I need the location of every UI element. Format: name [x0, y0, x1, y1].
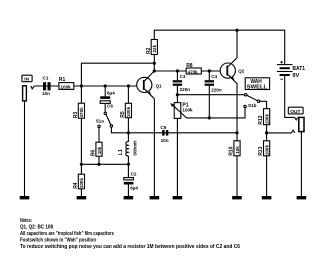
switch S1b [245, 94, 247, 96]
node C6 junction [104, 84, 107, 87]
wire Q1 emitter lead [153, 99, 155, 196]
svg-text:100k: 100k [79, 178, 84, 189]
wire S1a-C to R6 [98, 128, 100, 143]
svg-text:IN: IN [24, 76, 29, 81]
svg-text:R2: R2 [146, 47, 152, 54]
wire jack ground lead [24, 101, 26, 196]
wire bottom-left row [81, 163, 128, 165]
node rail/Q2-collector junction [235, 29, 238, 32]
node emitter/R10 junction [235, 131, 238, 134]
ground R10 [232, 196, 242, 199]
output lower arrow [292, 130, 295, 133]
node feedback junction [153, 62, 156, 65]
wire Q2 collector lead [236, 30, 238, 58]
svg-text:10k: 10k [235, 146, 240, 154]
svg-text:220n: 220n [180, 87, 191, 92]
wire R6 bottom [98, 156, 100, 164]
IN label box [22, 75, 32, 82]
svg-text:R12: R12 [258, 115, 264, 124]
svg-text:Q1: Q1 [156, 84, 163, 89]
svg-text:R5: R5 [120, 111, 126, 118]
wire R5 bottom [127, 118, 129, 133]
svg-text:6µ4: 6µ4 [130, 185, 138, 190]
svg-text:100k: 100k [264, 114, 269, 125]
svg-text:S1b: S1b [248, 103, 257, 108]
capacitor C3 [176, 71, 178, 80]
WAH SWELL label box [245, 78, 269, 90]
svg-text:R8: R8 [186, 63, 193, 69]
transistor Q1 [137, 77, 152, 92]
resistor R13 [266, 133, 268, 141]
wire R4 ground lead [80, 189, 82, 196]
svg-text:C6: C6 [107, 104, 113, 109]
svg-text:Footswitch shown in "Wah" posi: Footswitch shown in "Wah" position [20, 237, 96, 243]
resistor R6 [96, 142, 102, 156]
svg-text:470k: 470k [79, 107, 84, 118]
resistor R4 [78, 174, 84, 189]
wire P1 ground lead [176, 118, 178, 196]
wire top rail [154, 30, 284, 64]
ground Q1 emitter [150, 196, 160, 199]
ground input jack [20, 196, 30, 199]
wire P1 wiper to S1b [187, 108, 246, 118]
svg-text:C4: C4 [211, 74, 217, 79]
svg-text:C1: C1 [43, 76, 49, 81]
OUT label box [288, 107, 303, 114]
capacitor C1 [43, 82, 46, 90]
svg-text:L1: L1 [118, 149, 124, 155]
node bottom-left junction [80, 163, 83, 166]
ground output jack [297, 196, 307, 199]
svg-text:100k: 100k [264, 145, 269, 156]
node collector junction [153, 69, 156, 72]
wire feedback line [81, 63, 154, 103]
svg-text:BAT1: BAT1 [292, 66, 305, 72]
input jack J1 [23, 86, 27, 101]
svg-text:220n: 220n [211, 88, 222, 93]
wire R12 bottom [266, 125, 268, 133]
wire mid row (collector to Q2 base) [154, 70, 226, 72]
svg-text:S1a: S1a [96, 118, 105, 123]
battery minus sign [280, 78, 283, 80]
wire S1b-B to R12 [260, 101, 267, 108]
svg-text:OUT: OUT [290, 109, 300, 115]
svg-text:C2: C2 [131, 172, 137, 177]
ground R13 [262, 196, 272, 199]
svg-text:100k: 100k [61, 85, 72, 90]
svg-text:500mH: 500mH [132, 140, 137, 156]
wire C3 to S1b [177, 94, 244, 96]
node R12/R13/out junction [265, 131, 268, 134]
resistor R12 [264, 109, 270, 125]
battery BAT1 [277, 64, 293, 66]
svg-text:10n: 10n [42, 91, 50, 96]
svg-text:Notes:: Notes: [20, 218, 32, 224]
svg-text:R4: R4 [73, 182, 79, 189]
resistor R8 [186, 68, 201, 74]
svg-text:R1: R1 [59, 77, 66, 83]
node R1/R3 junction [80, 84, 83, 87]
ground C2 [124, 196, 134, 199]
wire R13 bottom [266, 156, 268, 196]
node R6 junction [97, 163, 100, 166]
svg-text:To reduce switching pop noise: To reduce switching pop noise you can ad… [20, 244, 240, 250]
capacitor C4 [208, 71, 210, 80]
svg-text:100k: 100k [126, 106, 131, 117]
svg-text:SWELL: SWELL [247, 85, 268, 91]
svg-text:22k: 22k [152, 44, 157, 52]
capacitor C2 electrolytic [127, 164, 129, 177]
resistor R2 [151, 40, 157, 55]
ground R4 [77, 196, 87, 199]
svg-text:100k: 100k [182, 107, 193, 112]
node C4 bottom junction [208, 116, 211, 119]
wire output row [267, 132, 292, 134]
node C3 top junction [176, 69, 179, 72]
wire R2 bottom [153, 55, 155, 72]
wire S1a-B down [111, 127, 237, 133]
resistor R3 [78, 103, 84, 118]
notes text [20, 218, 240, 250]
svg-text:6µ4: 6µ4 [107, 90, 115, 95]
node R5/L1 junction [127, 131, 130, 134]
node L1/C2 junction [127, 163, 130, 166]
wire R3 to R4 [80, 118, 82, 174]
input tip arrow [31, 86, 34, 89]
wire jack ground lead [300, 132, 302, 196]
svg-text:R13: R13 [258, 146, 264, 155]
capacitor C6 electrolytic [104, 86, 106, 96]
potentiometer P1 [174, 103, 181, 119]
battery plus sign [280, 61, 283, 64]
svg-text:C5: C5 [160, 125, 166, 130]
svg-text:R10: R10 [229, 146, 235, 155]
output jack J2 [299, 117, 304, 131]
capacitor C5 [162, 130, 164, 136]
svg-text:Q1, Q2: BC 108: Q1, Q2: BC 108 [20, 224, 53, 230]
transistor Q2 [220, 63, 235, 78]
wire R10 bottom [236, 156, 238, 196]
resistor R1 [59, 83, 74, 90]
switch S1a [104, 112, 106, 114]
svg-text:10k: 10k [97, 146, 102, 154]
svg-text:C3: C3 [180, 74, 186, 79]
svg-text:10n: 10n [161, 138, 169, 143]
node R5 junction [127, 84, 130, 87]
wire Q2 emitter lead [236, 84, 238, 133]
node C3/P1 junction [176, 93, 179, 96]
svg-text:470k: 470k [188, 69, 198, 74]
svg-text:R3: R3 [73, 112, 79, 119]
resistor R5 [127, 86, 129, 103]
svg-text:R6: R6 [91, 150, 97, 157]
wire battery negative to jack [285, 76, 295, 117]
resistor R10 [236, 133, 238, 141]
output upper arrow [295, 117, 298, 120]
svg-text:Q2: Q2 [238, 68, 245, 73]
wire input line [34, 85, 143, 87]
svg-text:All capacitors are "tropical f: All capacitors are "tropical fish" film … [20, 231, 114, 237]
node C4 top junction [208, 69, 211, 72]
svg-text:9V: 9V [292, 73, 299, 79]
inductor L1 [127, 133, 129, 142]
ground P1 [173, 196, 183, 199]
